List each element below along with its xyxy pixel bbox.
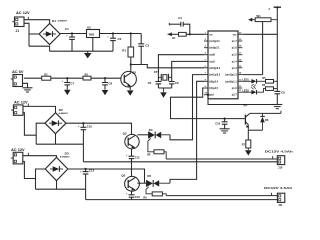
wire D2 negative rail <box>36 143 83 145</box>
wire under D1 to bottom vertex <box>29 46 50 51</box>
svg-text:(txd)p3.1: (txd)p3.1 <box>209 47 220 50</box>
wire D3 bottom vertex drop <box>56 181 58 190</box>
wire loop to D1 left vertex <box>29 33 39 35</box>
wire U2 ground pin <box>92 38 94 52</box>
node R1 junction <box>130 32 132 34</box>
resistor R8 <box>154 150 164 154</box>
svg-text:C9: C9 <box>281 91 285 95</box>
svg-text:J1: J1 <box>16 29 20 33</box>
svg-text:4×IN4007: 4×IN4007 <box>58 20 68 23</box>
node C7 junction <box>66 77 68 79</box>
connector J2 <box>13 105 23 115</box>
svg-text:C18: C18 <box>215 121 220 125</box>
svg-text:J11: J11 <box>278 203 283 207</box>
resistor R1 <box>130 34 132 48</box>
triac D4 <box>148 132 150 139</box>
ground C18 <box>220 128 230 130</box>
capacitor C7 <box>66 78 68 82</box>
regulator U2 7805 <box>87 30 100 38</box>
wire PSU ground rail <box>50 50 113 52</box>
wire battery2 minus <box>86 199 278 201</box>
resistor R3 <box>83 76 91 80</box>
connector J4 <box>13 75 23 87</box>
wire D3 negative rail <box>36 188 86 190</box>
svg-text:vcc: vcc <box>233 33 238 36</box>
svg-text:C13: C13 <box>135 195 141 199</box>
capacitor C4 <box>169 23 181 25</box>
capacitor C3 <box>140 34 142 44</box>
svg-text:p1.6: p1.6 <box>232 47 238 50</box>
U1 left pin 7 stub <box>204 74 208 76</box>
resistor R7 <box>247 130 249 140</box>
connector J1 <box>15 17 25 27</box>
bridge rectifier D3 <box>45 157 68 180</box>
triac D5 <box>146 180 148 187</box>
U1 left pin 10 stub <box>204 94 208 96</box>
power flag +5V <box>274 6 281 8</box>
svg-text:DC12V 4.5Ah: DC12V 4.5Ah <box>265 150 294 154</box>
U1 right pin 18 stub <box>238 47 242 49</box>
svg-text:Q2: Q2 <box>132 70 136 74</box>
svg-text:p1.4: p1.4 <box>232 60 238 63</box>
wire loop riser to D3 left vertex <box>36 169 46 189</box>
wire XTAL1 to U1 pin5 <box>172 61 204 81</box>
svg-text:C12: C12 <box>89 169 95 173</box>
svg-text:C6: C6 <box>175 81 179 85</box>
U1 right pin 13 stub <box>238 80 242 82</box>
wire D2 positive rail <box>66 123 132 135</box>
svg-text:C10: C10 <box>87 125 93 129</box>
U1 left pin 3 stub <box>204 47 208 49</box>
wire Q1 emitter node <box>248 129 262 131</box>
transistor Q2 <box>121 71 137 87</box>
connector J3 <box>13 152 23 164</box>
svg-text:DC12V 4.5Ah: DC12V 4.5Ah <box>264 186 293 190</box>
crystal XT1 <box>158 76 161 78</box>
svg-text:D3: D3 <box>65 151 69 155</box>
capacitor C9 <box>274 90 280 92</box>
node C2 junction <box>112 32 114 34</box>
resistor R9 <box>152 192 162 196</box>
svg-text:gnd: gnd <box>209 94 214 97</box>
svg-text:(rxd)p3.0: (rxd)p3.0 <box>209 40 220 43</box>
svg-text:Q3: Q3 <box>123 131 127 135</box>
svg-text:p1.5: p1.5 <box>232 54 238 57</box>
LED2 arrows <box>251 87 253 89</box>
svg-text:AC 12V: AC 12V <box>16 10 30 15</box>
capacitor C10 <box>82 123 84 127</box>
resistor R5 <box>266 80 274 84</box>
node C18 junction <box>224 118 226 120</box>
wire crystal ground rail <box>158 87 171 89</box>
node C8 junction <box>104 77 106 79</box>
wire D5 gate <box>146 187 152 194</box>
U1 left pin 8 stub <box>204 80 208 82</box>
svg-text:p1.0: p1.0 <box>232 87 238 90</box>
U1 right pin 14 stub <box>238 74 242 76</box>
transistor Q5 <box>125 176 140 191</box>
wire J2 bottom pin loop <box>23 113 36 136</box>
svg-text:D5: D5 <box>147 174 151 178</box>
ground C8 <box>102 90 109 95</box>
wire Q1 collector rail <box>250 112 281 114</box>
connector J11 <box>277 193 284 202</box>
capacitor C8 <box>104 78 106 82</box>
wire J4 lower pin to ground <box>23 83 28 88</box>
U1 left pin 2 stub <box>204 40 208 42</box>
svg-text:(int0)p3.2: (int0)p3.2 <box>209 67 220 70</box>
wire D3 positive rail <box>68 169 145 183</box>
wire R9 to output2 plus <box>162 194 166 196</box>
wire +5V rail vertical <box>276 7 278 91</box>
U1 left pin 9 stub <box>204 87 208 89</box>
wire VCC pin20 to +5V rail <box>242 33 277 35</box>
ground crystal <box>160 92 167 97</box>
svg-text:D2: D2 <box>59 108 63 112</box>
node C1 junction <box>71 32 73 34</box>
svg-text:LED2: LED2 <box>242 90 249 93</box>
ground PSU <box>87 51 89 53</box>
U1 right pin 19 stub <box>238 40 242 42</box>
diode D6 <box>262 113 264 116</box>
U1 right pin 20 stub <box>238 33 242 35</box>
wire pin7 P3.3 to triac D4 net <box>170 75 204 140</box>
wire R4 to U1 pin1 <box>186 33 204 35</box>
potentiometer W1 <box>255 18 271 22</box>
svg-text:p1.3: p1.3 <box>232 67 238 70</box>
svg-text:p1.7: p1.7 <box>232 40 238 43</box>
LED1 arrows <box>251 84 253 86</box>
wire J3 top pin to bridge D3 <box>23 156 57 158</box>
svg-text:XT1: XT1 <box>154 70 160 74</box>
wire C10 node drop to battery minus wire <box>82 144 84 162</box>
wire Q5 to triac D5 <box>137 182 146 184</box>
bridge rectifier D1 <box>39 24 60 45</box>
wire U1 GND to supply ground <box>207 94 209 96</box>
wire D4 gate <box>148 138 154 151</box>
svg-text:(int1)p3.3: (int1)p3.3 <box>209 74 220 77</box>
svg-text:C5: C5 <box>148 81 152 85</box>
node C4-RST junction <box>189 33 191 35</box>
svg-text:AC 12V: AC 12V <box>11 147 25 152</box>
svg-text:U2: U2 <box>87 25 91 29</box>
wire Q2 collector up <box>130 65 132 73</box>
capacitor C11 <box>131 149 133 156</box>
wire pin8 P3.4 to triac D5 net <box>170 81 204 183</box>
U1 left pin 6 stub <box>204 67 208 69</box>
svg-text:(t0)p3.4: (t0)p3.4 <box>209 80 218 83</box>
LED LED2 <box>242 91 251 93</box>
ground Q1 emitter resistor <box>245 150 252 155</box>
wire pin9 P3.5 to Q1 base <box>171 88 246 119</box>
ground +5V rail <box>272 104 282 106</box>
svg-text:D6: D6 <box>265 118 269 122</box>
node C12 junction <box>85 168 87 170</box>
wire AC6V signal <box>24 77 121 79</box>
wire W1 wiper down to pin14 <box>262 22 264 75</box>
wire battery2 plus <box>166 195 277 197</box>
U1 left pin 4 stub <box>204 54 208 56</box>
svg-text:R1: R1 <box>122 48 126 52</box>
ground Q2 emitter <box>127 90 134 95</box>
U1 right pin 12 stub <box>238 87 242 89</box>
svg-text:C3: C3 <box>145 44 149 48</box>
wire Q2 emitter to ground <box>129 86 131 90</box>
wire J1 bottom pin loop to bridge D1 AC2 <box>24 23 29 46</box>
U1 right pin 17 stub <box>238 54 242 56</box>
wire J3 bottom pin loop <box>23 162 36 179</box>
U1 left pin 1 stub <box>204 33 208 35</box>
wire collector node to P3.2 <box>131 65 204 68</box>
wire R8 to output plus <box>164 152 166 159</box>
capacitor C6 <box>169 81 175 83</box>
svg-text:C11: C11 <box>135 155 140 159</box>
svg-text:AC 12V: AC 12V <box>14 100 28 105</box>
svg-text:C4: C4 <box>178 16 182 20</box>
ground AC6V connector <box>23 87 33 89</box>
wire loop riser to D2 left vertex <box>36 123 45 144</box>
resistor R2 <box>42 76 51 80</box>
wire D2 bottom vertex drop <box>55 134 57 145</box>
svg-text:J10: J10 <box>278 165 283 169</box>
wire battery1 plus <box>166 158 277 160</box>
connector J10 <box>277 156 284 165</box>
capacitor C13 <box>131 191 133 195</box>
svg-text:Q1: Q1 <box>243 103 247 107</box>
capacitor C5 <box>155 81 161 83</box>
wire battery1 minus <box>83 161 277 163</box>
wire J2 top pin to bridge D2 <box>23 106 56 112</box>
svg-text:4×IN4007: 4×IN4007 <box>60 156 70 159</box>
svg-text:p3.7: p3.7 <box>232 94 238 97</box>
svg-text:C1: C1 <box>65 27 69 31</box>
wire pin14 stub to wiper <box>242 74 262 76</box>
wire Q3 to triac D4 <box>137 134 148 136</box>
wire +12V rail <box>60 33 141 35</box>
svg-text:C2: C2 <box>118 37 122 41</box>
U1 right pin 11 stub <box>238 91 242 93</box>
resistor R4 <box>179 32 187 36</box>
svg-text:AC 6V: AC 6V <box>12 69 24 74</box>
svg-text:D4: D4 <box>149 128 153 132</box>
wire XTAL2 to U1 pin4 <box>158 55 204 82</box>
LED LED1 <box>242 80 251 82</box>
op-amp U1 microcontroller AT89C2051 body <box>208 31 238 99</box>
svg-text:W1: W1 <box>256 14 261 18</box>
svg-text:(t1)p3.5: (t1)p3.5 <box>209 87 218 90</box>
svg-text:(ain0)p1.1: (ain0)p1.1 <box>225 80 237 83</box>
bridge rectifier D2 <box>45 113 66 134</box>
node Q2 collector junction <box>130 63 132 65</box>
wire RST line with off-page arrow <box>168 32 172 36</box>
U1 left pin 5 stub <box>204 60 208 62</box>
capacitor C18 <box>224 119 226 122</box>
wire J1 top pin to bridge D1 AC1 <box>24 20 50 24</box>
svg-text:xtal1: xtal1 <box>209 60 215 63</box>
wire C12 node drop to battery2 minus wire <box>85 189 87 199</box>
svg-text:C7: C7 <box>71 82 75 86</box>
svg-text:xtal2: xtal2 <box>209 54 215 57</box>
svg-text:Q5: Q5 <box>121 173 125 177</box>
svg-text:4×IN4007: 4×IN4007 <box>58 112 68 115</box>
U1 right pin 16 stub <box>238 60 242 62</box>
capacitor C1 <box>71 34 73 38</box>
svg-text:(ain1)p1.2: (ain1)p1.2 <box>225 74 237 77</box>
node C10 junction <box>82 122 84 124</box>
svg-text:C8: C8 <box>108 82 112 86</box>
svg-text:rst: rst <box>209 33 212 36</box>
transistor Q1 <box>244 115 246 125</box>
U1 right pin 15 stub <box>238 67 242 69</box>
svg-text:7805: 7805 <box>89 33 95 36</box>
capacitor C12 <box>85 169 87 172</box>
resistor R6 <box>266 87 274 91</box>
transistor Q3 <box>125 134 139 148</box>
capacitor C2 <box>112 34 114 39</box>
svg-text:D1: D1 <box>52 19 56 23</box>
ground C7 <box>64 90 71 95</box>
svg-text:LED1: LED1 <box>242 79 249 82</box>
